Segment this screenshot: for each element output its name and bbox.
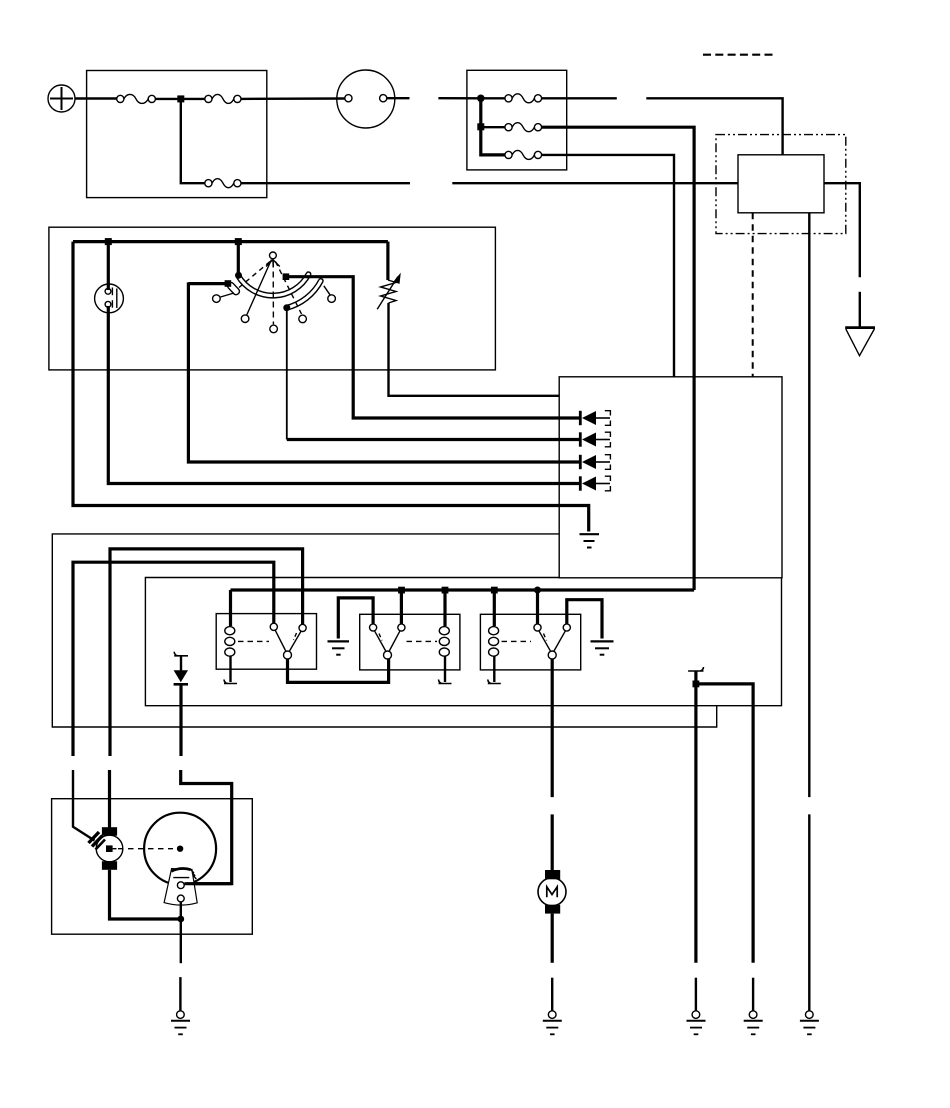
relay K3 lever bbox=[539, 631, 566, 652]
contact circle far left bbox=[213, 295, 221, 303]
contact circle right upper bbox=[324, 286, 336, 303]
junction node rail rotary bbox=[235, 238, 242, 245]
wire junction to F2a bbox=[484, 97, 505, 99]
relay K1 box bbox=[216, 614, 316, 670]
ignition switch box S1 bbox=[49, 227, 496, 370]
rotary switch inner arc band bbox=[284, 279, 323, 311]
relay rail horizontal bbox=[231, 588, 695, 591]
dashed legend line top right bbox=[703, 54, 774, 56]
wire connector to control rect left bbox=[452, 182, 738, 184]
flasher cam wheel bbox=[144, 813, 216, 885]
rotary switch outer arc band bbox=[236, 272, 311, 298]
cam contact upper bbox=[177, 882, 231, 889]
node rotary arc start dot bbox=[235, 272, 242, 279]
wire F2a output to connector gap bbox=[542, 97, 617, 99]
dashed selector centerline bbox=[272, 262, 274, 325]
wire K1 common to K2 common bbox=[288, 659, 389, 683]
ground terminal right2 bbox=[744, 978, 763, 1035]
relay K2 lever bbox=[375, 631, 401, 652]
terminal hook switch right bbox=[688, 667, 703, 671]
junction node capsule wire bbox=[225, 280, 232, 287]
relay K1 contact A bbox=[270, 623, 277, 630]
contact capsule left bbox=[221, 281, 241, 297]
fuse box F2 bbox=[467, 70, 567, 170]
fuse box F1 bbox=[87, 71, 267, 198]
wire rail right leg to rheostat bbox=[386, 242, 389, 280]
diode D4 bbox=[580, 476, 610, 491]
wire left feed into flasher brush bbox=[73, 770, 95, 841]
wire F1b to ammeter bbox=[241, 97, 345, 100]
ground symbol between K1 K2 bbox=[328, 641, 350, 654]
wire ground to K2 contact A bbox=[338, 598, 373, 639]
junction node F2 middle bbox=[477, 123, 484, 130]
wire lamp down to diode 4 bbox=[108, 306, 580, 484]
ground terminal motor bbox=[543, 978, 562, 1035]
wire motor to ground gap bbox=[551, 914, 554, 963]
ground symbol in diode box bbox=[580, 534, 600, 547]
wire ammeter to connector gap bbox=[387, 97, 410, 99]
diode D2 flasher feed bbox=[174, 652, 188, 756]
wire feed into flasher commutator bbox=[108, 770, 111, 828]
battery positive terminal B+ bbox=[48, 85, 75, 112]
wire hook down to ground right1 bbox=[694, 672, 697, 963]
cam contact lower bbox=[177, 895, 184, 902]
wire rheostat down to diode box top wire bbox=[389, 303, 560, 396]
wire U1 bottom right down long bbox=[808, 213, 810, 797]
relay K2 coil bbox=[439, 590, 449, 682]
flasher motor commutator bbox=[96, 827, 123, 870]
outer boundary box A bbox=[52, 534, 716, 727]
motor M1 bbox=[538, 870, 566, 914]
wire wiper output to diode 1 bbox=[287, 277, 581, 418]
ground terminal right1 bbox=[687, 978, 706, 1035]
wire arrow segment bbox=[859, 292, 861, 327]
wire F2b output down to relay rail bbox=[542, 127, 695, 590]
ground terminal far right bbox=[800, 1011, 819, 1035]
wire cam contact lower down bbox=[180, 902, 182, 963]
lamp holder L1 bbox=[95, 284, 124, 313]
wire commutator bottom to junction bbox=[110, 870, 179, 919]
node inner arc dot bbox=[283, 304, 290, 311]
selector lever solid bbox=[247, 260, 272, 316]
fuse F1c bbox=[205, 179, 241, 188]
wire inner-left leg to capsule bbox=[188, 282, 225, 285]
fuse F1a bbox=[117, 94, 156, 103]
wire rail to K3 contact A bbox=[536, 590, 539, 624]
dashed link K1 coil to lever bbox=[238, 640, 269, 642]
contact circle bottom left bbox=[241, 315, 249, 323]
junction node rail K2 coil bbox=[442, 587, 449, 594]
junction node fuse box F1 bbox=[177, 95, 184, 102]
fuse F2b bbox=[505, 123, 542, 132]
dash-dot boundary box U1 bbox=[716, 135, 846, 234]
ground terminal flasher bbox=[171, 977, 190, 1034]
junction node rail lamp bbox=[105, 238, 112, 245]
flasher brush bbox=[89, 832, 106, 850]
wire connector to control rect top bbox=[646, 98, 782, 155]
arrow head open triangle bbox=[845, 328, 875, 356]
dashed wire U1 bottom to diode box top bbox=[752, 213, 754, 377]
wire junction to second ground bbox=[696, 684, 753, 963]
diode box module bbox=[559, 377, 782, 578]
wire F1c to connector gap bbox=[241, 182, 410, 184]
ground symbol right of K3 bbox=[591, 641, 614, 654]
wire far right segment bbox=[808, 814, 810, 1010]
boundary box B bbox=[145, 578, 781, 706]
relay K3 coil bbox=[489, 590, 499, 682]
relay K3 box bbox=[480, 614, 580, 670]
ammeter A1 bbox=[337, 70, 395, 128]
relay K1 contact B bbox=[299, 624, 306, 631]
junction node wiper output bbox=[283, 273, 290, 280]
terminal hook K1 coil bbox=[224, 680, 237, 684]
relay K1 common C bbox=[284, 651, 292, 659]
relay K1 coil bbox=[225, 590, 235, 682]
relay K2 contact A bbox=[370, 624, 377, 631]
wire junction to F2b bbox=[484, 126, 505, 128]
relay K3 contact A bbox=[534, 624, 541, 631]
junction node rail K3A bbox=[534, 587, 541, 594]
dashed link K3 coil to lever bbox=[502, 640, 532, 642]
control unit rect U1 bbox=[738, 155, 824, 213]
wire rail to rotary arc start bbox=[237, 245, 240, 273]
junction node flasher out bbox=[177, 916, 184, 923]
wire relay1 contactB feed bbox=[110, 549, 303, 756]
dashed selector line to capsule bbox=[239, 262, 270, 288]
wire inner-left leg down to diode 3 bbox=[188, 282, 580, 462]
dashed shaft link bbox=[118, 848, 173, 850]
terminal hook K3 coil bbox=[488, 680, 501, 684]
fuse F1b bbox=[184, 94, 241, 103]
dashed link K2 lever to coil bbox=[407, 640, 438, 642]
wire U1 right to arrow bbox=[824, 183, 860, 277]
flasher unit box bbox=[52, 799, 253, 935]
relay K2 common C bbox=[384, 651, 392, 659]
wire junction down to fuse F1c bbox=[181, 102, 205, 183]
wire rail to K2 contact B bbox=[400, 590, 403, 624]
cam follower trapezoid bbox=[164, 869, 197, 906]
fuse F2a bbox=[505, 94, 542, 103]
junction node rail K2B bbox=[398, 587, 405, 594]
rheostat R1 bbox=[377, 273, 401, 310]
contact circle bottom middle bbox=[270, 325, 278, 333]
fuse F2c bbox=[505, 150, 542, 159]
wire F1a to junction bbox=[155, 98, 180, 100]
junction node F2 top bbox=[477, 95, 485, 103]
wire relay1 contactA feed bbox=[73, 562, 274, 756]
relay K1 lever bbox=[275, 630, 301, 651]
wire K3 contact B to ground bbox=[567, 600, 602, 639]
wire battery to fuse box F1 bbox=[75, 97, 117, 99]
relay K2 box bbox=[360, 614, 460, 670]
junction node rail K3 coil bbox=[491, 587, 498, 594]
wire connector to fuse box F2 junction bbox=[438, 97, 478, 100]
wire inner arc dot down to diode 2 bbox=[287, 310, 581, 440]
wire junction chain F2 bbox=[481, 101, 505, 155]
wire relay K3 common down to motor bbox=[551, 659, 554, 797]
terminal hook K2 coil bbox=[439, 680, 452, 684]
contact circle bottom right bbox=[299, 315, 307, 323]
relay K3 common C bbox=[548, 651, 556, 659]
relay K3 contact B bbox=[563, 624, 570, 631]
wire rail to lamp holder bbox=[107, 245, 110, 290]
relay K2 contact B bbox=[398, 624, 405, 631]
diode D3 bbox=[580, 455, 610, 470]
wire rail left leg down to diode box ground run bbox=[73, 242, 589, 532]
wire ignition feed rail bbox=[73, 240, 388, 243]
junction node right switch bbox=[693, 681, 700, 688]
diode D1 bbox=[580, 411, 610, 426]
diode D2m bbox=[580, 432, 610, 447]
wire diode D2 to flasher cam contact bbox=[181, 770, 232, 884]
dashed selector line to right contact bbox=[276, 262, 302, 315]
wire F2c output down to diode box bbox=[542, 155, 674, 377]
wire motor feed segment bbox=[551, 814, 554, 870]
rotary pivot bbox=[266, 252, 280, 267]
